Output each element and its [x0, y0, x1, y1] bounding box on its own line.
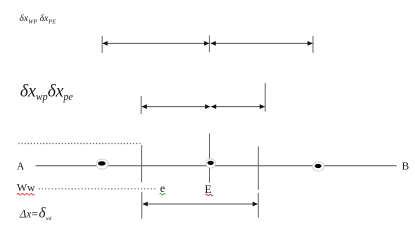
- spellcheck squiggle red under Ww: [17, 194, 35, 196]
- svg-text:Ww: Ww: [17, 182, 35, 194]
- vertical line at E crossing: [209, 133, 211, 182]
- tick bar row1 left: [101, 36, 103, 53]
- node ellipse 2: [206, 159, 216, 168]
- dimension arrow row2 right span: [211, 104, 265, 109]
- tick bar row1 middle: [208, 36, 210, 53]
- svg-text:δxWP δxPE: δxWP δxPE: [19, 13, 56, 26]
- vertical line at left crossing: [141, 145, 143, 182]
- spellcheck squiggle red under E: [205, 194, 213, 196]
- dotted line upper: [18, 143, 140, 145]
- svg-text:B: B: [402, 161, 409, 173]
- svg-text:δxwp δxpe: δxwp δxpe: [20, 81, 74, 104]
- dotted leader line: [39, 188, 157, 190]
- bottom dimension arrow: [143, 202, 258, 207]
- dimension arrow row2 left span: [142, 104, 211, 109]
- svg-text:A: A: [17, 161, 25, 172]
- node ellipse 3: [313, 162, 324, 171]
- vertical line at right crossing: [257, 146, 259, 189]
- tick bar bottom left: [141, 192, 143, 219]
- node ellipse 1: [96, 159, 108, 169]
- svg-text:Δx=δwd: Δx=δwd: [19, 206, 52, 222]
- tick bar bottom right: [257, 193, 259, 218]
- grammar squiggle green under e: [160, 193, 166, 195]
- tick bar row2 left: [140, 96, 142, 114]
- tick bar row2 right tall: [264, 83, 266, 111]
- main horizontal line A-B: [36, 165, 397, 167]
- dimension arrow row1 right span: [211, 41, 313, 46]
- tick bar row1 right: [312, 36, 314, 53]
- dimension arrow row1 left span: [102, 41, 209, 46]
